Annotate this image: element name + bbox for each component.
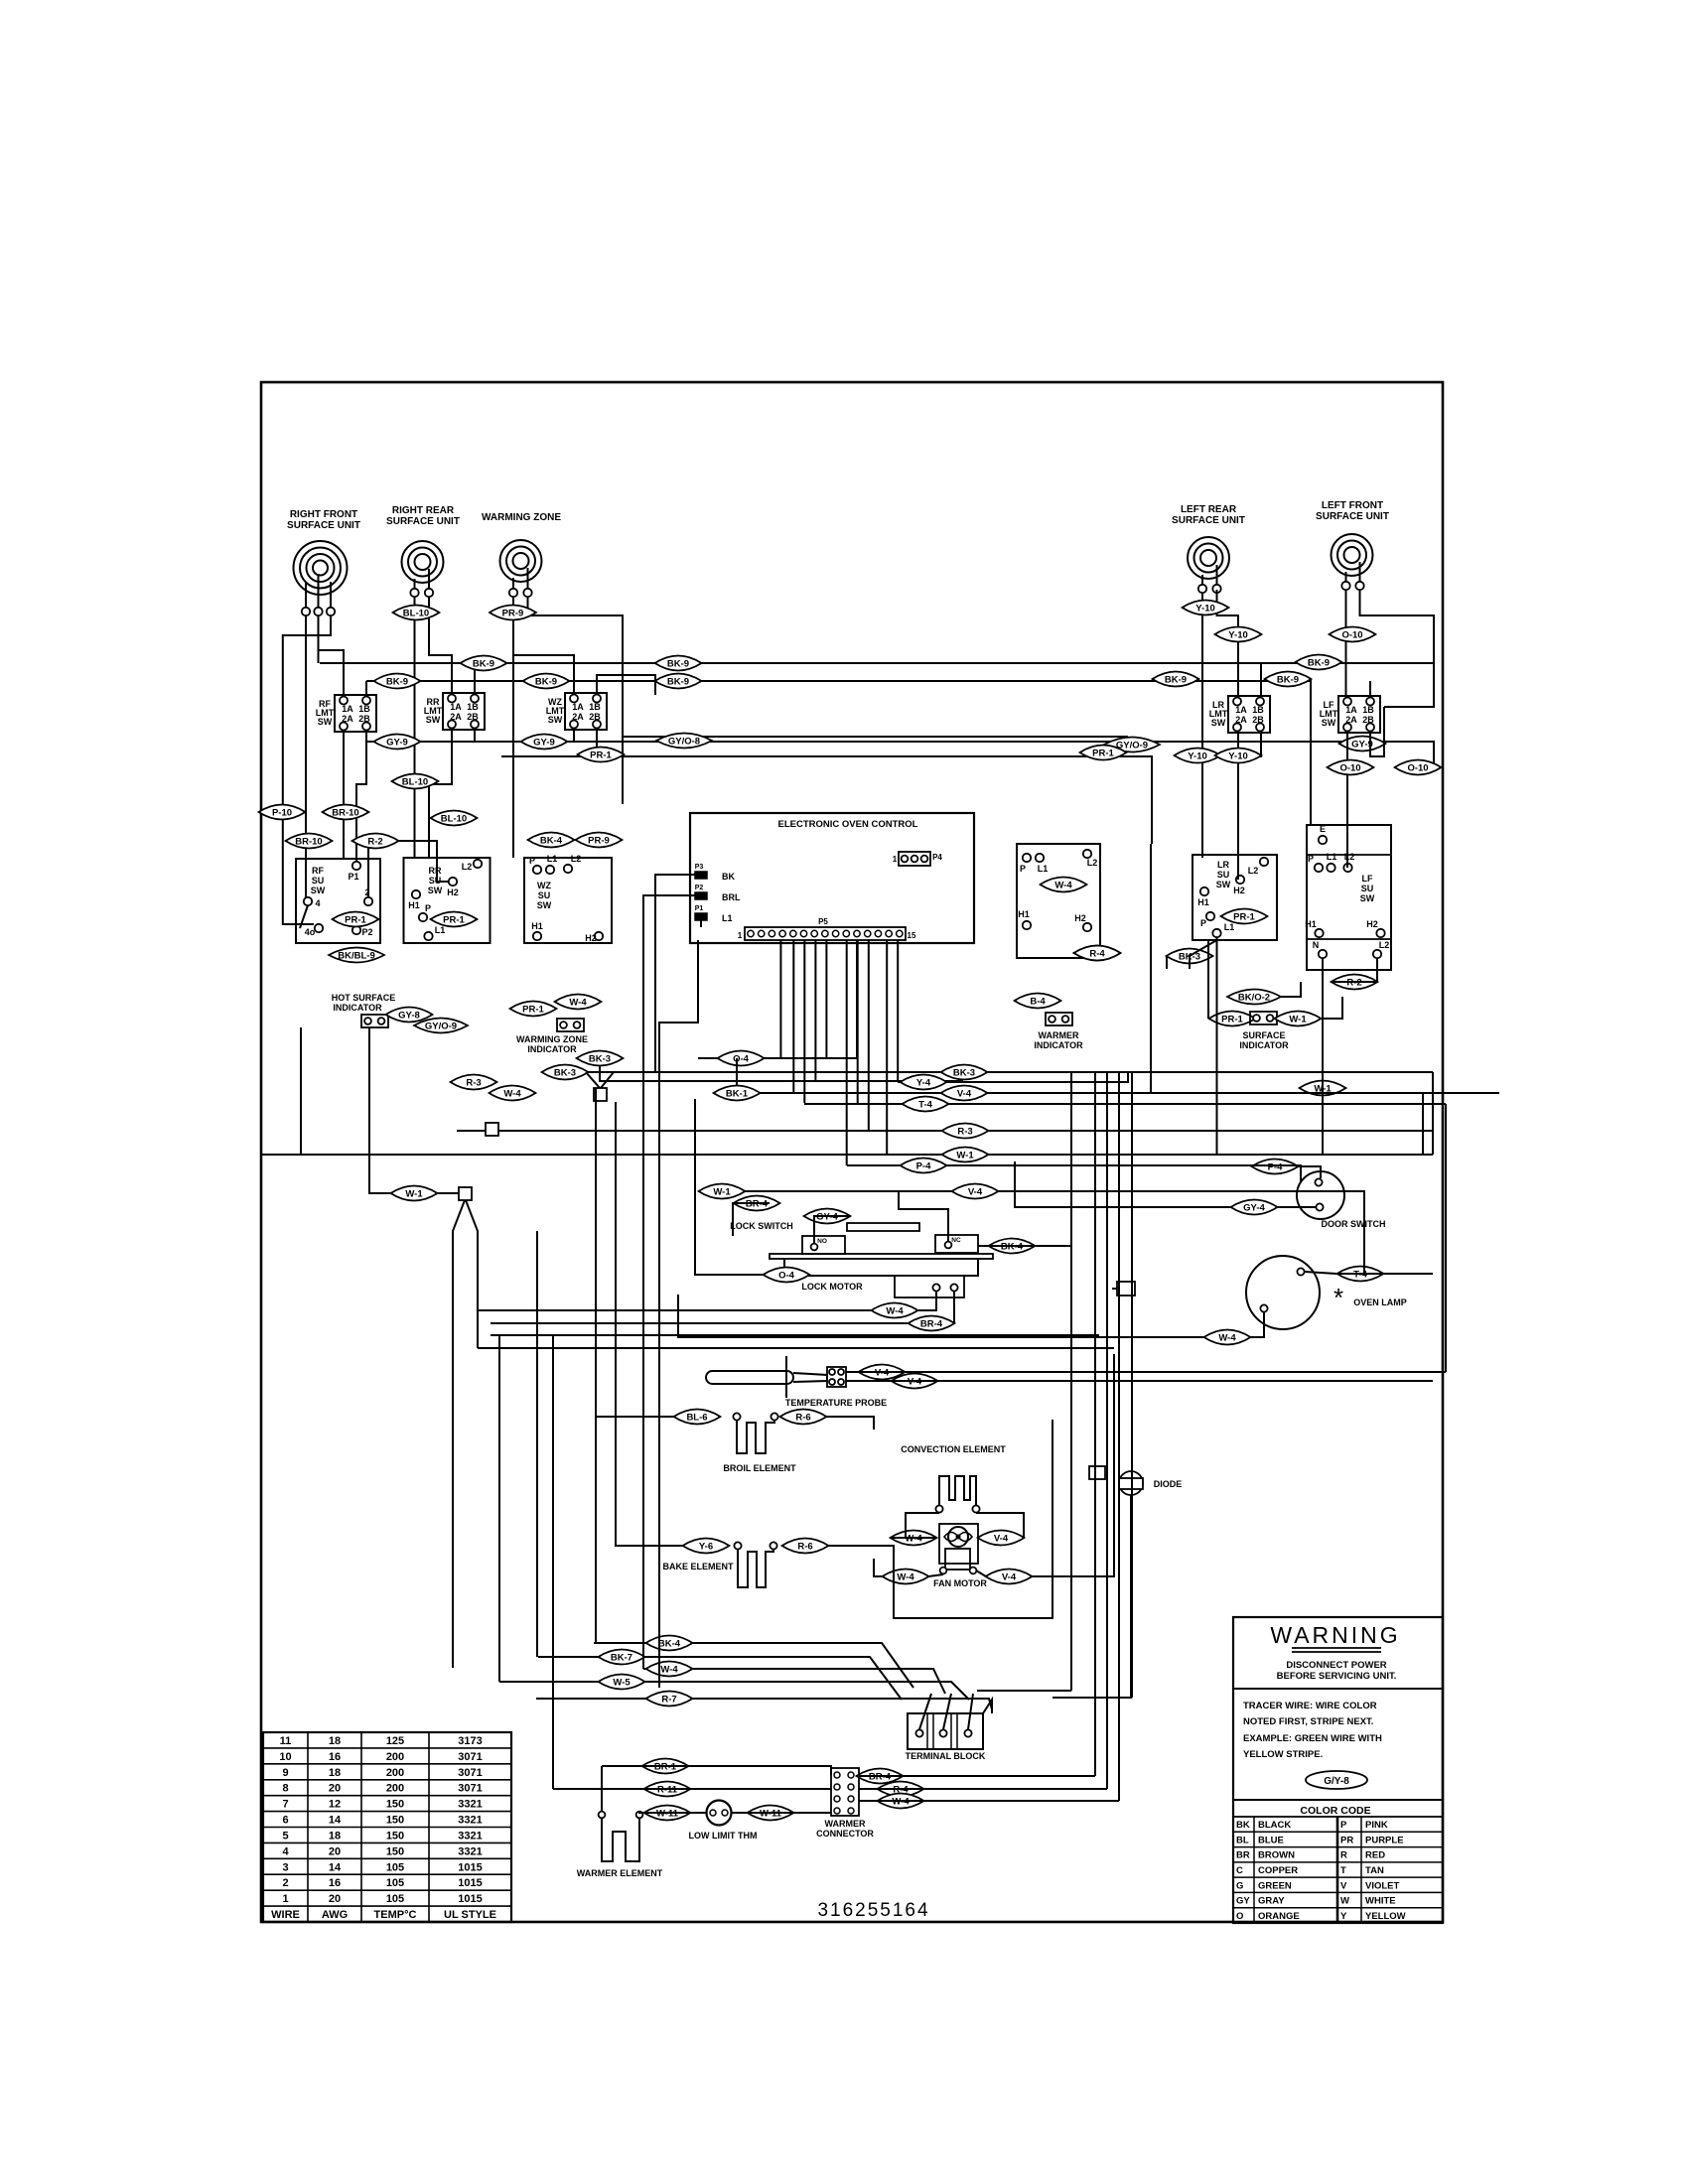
- svg-text:SW: SW: [1360, 893, 1375, 903]
- svg-text:GY: GY: [1236, 1896, 1250, 1907]
- wire LF N down: [1322, 958, 1324, 1155]
- oval Y-6 bake: [683, 1539, 730, 1554]
- wire EOC BRL stub: [643, 895, 695, 1131]
- wire RF LMT 1B up to bus2: [365, 681, 367, 695]
- svg-text:O-10: O-10: [1341, 629, 1362, 640]
- svg-text:WARMING ZONE: WARMING ZONE: [516, 1034, 588, 1044]
- wire WZ terminal right right: [528, 597, 624, 804]
- svg-text:150: 150: [386, 1799, 404, 1811]
- svg-text:PR-1: PR-1: [590, 750, 612, 760]
- svg-text:1A: 1A: [1235, 705, 1247, 715]
- wire lock bottom row1: [479, 1347, 1114, 1349]
- coil left front surface unit: [1332, 534, 1373, 576]
- svg-text:FAN MOTOR: FAN MOTOR: [933, 1578, 987, 1588]
- wire P5 pin drop 8: [868, 940, 870, 1131]
- svg-text:G: G: [1236, 1880, 1243, 1891]
- wire RF LMT 2A down to RF SU SW: [343, 731, 345, 859]
- oval BK-9 h: [1265, 672, 1312, 687]
- svg-text:O-10: O-10: [1407, 762, 1428, 773]
- svg-text:BK-3: BK-3: [554, 1067, 576, 1078]
- svg-text:BR-10: BR-10: [332, 807, 358, 818]
- junction c V left: [453, 1200, 465, 1646]
- wire bake left: [616, 1102, 683, 1546]
- wire w-4 lamp left: [678, 1295, 1204, 1337]
- oval R-6 bake: [782, 1539, 829, 1554]
- svg-text:WIRE: WIRE: [271, 1909, 300, 1921]
- lock bracket: [784, 1259, 895, 1276]
- svg-text:BLACK: BLACK: [1258, 1820, 1291, 1831]
- svg-text:3321: 3321: [458, 1831, 482, 1843]
- junction square c: [459, 1187, 472, 1200]
- svg-text:G/Y-8: G/Y-8: [1324, 1776, 1349, 1787]
- svg-text:BK-4: BK-4: [658, 1638, 681, 1649]
- oval W-11 llt right: [748, 1806, 794, 1821]
- oval Y-10 c: [1175, 749, 1221, 763]
- wire RF LMT 1A up: [319, 650, 345, 695]
- svg-text:PR-9: PR-9: [588, 835, 610, 846]
- oval BR-1 wc: [642, 1759, 689, 1774]
- row BK-3 long: [600, 1058, 963, 1081]
- wire R-2 run: [368, 841, 448, 897]
- svg-text:SW: SW: [537, 900, 552, 910]
- oval O-10 b: [1328, 760, 1374, 775]
- svg-text:H1: H1: [1305, 919, 1317, 929]
- broil element: [733, 1413, 740, 1420]
- oval P-10: [259, 805, 306, 820]
- wire 481 row: [478, 1347, 1114, 1349]
- row V-4 long: [730, 1092, 1499, 1094]
- svg-text:RED: RED: [1365, 1850, 1385, 1861]
- oval W-1 surf: [1275, 1012, 1322, 1026]
- oval BR-4 wc: [857, 1769, 904, 1784]
- oval W-4 warmer: [1041, 878, 1087, 892]
- oval BK-4 lock nc: [989, 1239, 1036, 1254]
- wire gy-4 door: [1015, 1161, 1231, 1207]
- bus BK-9 second: [366, 681, 1311, 825]
- svg-text:YELLOW: YELLOW: [1365, 1911, 1406, 1922]
- svg-text:BROWN: BROWN: [1258, 1850, 1295, 1861]
- connector P4: [899, 852, 930, 866]
- svg-text:1: 1: [738, 931, 743, 940]
- wire wc right BR-4: [859, 1775, 1095, 1777]
- oval V-4 probe1: [859, 1365, 906, 1380]
- svg-text:4: 4: [282, 1845, 289, 1857]
- svg-text:150: 150: [386, 1831, 404, 1843]
- svg-text:200: 200: [386, 1751, 404, 1763]
- oval GY-4 door: [1231, 1200, 1278, 1215]
- svg-text:W-1: W-1: [1289, 1014, 1307, 1024]
- svg-text:W-4: W-4: [1218, 1332, 1236, 1343]
- oval GY-8 hsi: [386, 1008, 433, 1023]
- svg-text:1B: 1B: [358, 704, 370, 714]
- svg-text:SW: SW: [311, 886, 326, 895]
- oval BK-9 g: [1153, 672, 1199, 687]
- svg-text:GY-4: GY-4: [1243, 1202, 1265, 1213]
- oval W-1 a: [942, 1148, 989, 1162]
- wire WZ LMT 1B right: [597, 675, 655, 695]
- oval PR-1 rf: [333, 912, 379, 927]
- svg-text:Y-6: Y-6: [699, 1541, 713, 1552]
- switch LF SU SW: [1307, 825, 1391, 970]
- svg-text:W-4: W-4: [886, 1305, 904, 1316]
- svg-text:3071: 3071: [458, 1751, 482, 1763]
- svg-text:W-1: W-1: [713, 1186, 731, 1197]
- coil warming zone: [500, 540, 542, 582]
- wire EOC L1 down: [659, 940, 698, 1155]
- oval BK-7 bl: [599, 1650, 645, 1665]
- svg-text:2A: 2A: [1345, 715, 1357, 725]
- wire wc right W-4: [859, 1800, 1119, 1802]
- svg-text:GRAY: GRAY: [1258, 1896, 1285, 1907]
- svg-text:BR-10: BR-10: [295, 836, 322, 847]
- svg-text:8: 8: [282, 1783, 288, 1795]
- svg-text:W-4: W-4: [503, 1088, 521, 1099]
- row O-4: [698, 940, 857, 1058]
- svg-text:SURFACE: SURFACE: [1242, 1030, 1285, 1040]
- svg-text:2A: 2A: [450, 712, 462, 722]
- svg-text:H2: H2: [1074, 913, 1086, 923]
- svg-text:SW: SW: [318, 717, 333, 727]
- svg-text:W: W: [1340, 1896, 1349, 1907]
- svg-text:PR-1: PR-1: [522, 1004, 544, 1015]
- svg-text:2: 2: [282, 1877, 288, 1889]
- wire LR term right down: [1217, 590, 1239, 696]
- oval W-4 wz ind: [555, 995, 602, 1010]
- svg-text:1B: 1B: [1252, 705, 1264, 715]
- svg-text:H2: H2: [1366, 919, 1378, 929]
- svg-text:5: 5: [282, 1831, 288, 1843]
- oval T-4: [903, 1097, 949, 1112]
- svg-text:Y-10: Y-10: [1228, 751, 1248, 761]
- diode: [1119, 1471, 1143, 1495]
- svg-text:14: 14: [329, 1815, 342, 1827]
- svg-text:P: P: [1308, 854, 1314, 864]
- svg-text:CONNECTOR: CONNECTOR: [816, 1829, 874, 1839]
- svg-text:C: C: [1236, 1865, 1243, 1876]
- switch WZ LMT SW: [565, 693, 607, 730]
- switch RR SU SW: [404, 858, 491, 943]
- oval Y-10 d: [1215, 749, 1262, 763]
- wire warmer left leg up: [601, 1766, 603, 1811]
- bus GY/O-8: [623, 737, 1152, 745]
- wire gy-4 lock: [733, 1203, 770, 1236]
- svg-text:BEFORE SERVICING UNIT.: BEFORE SERVICING UNIT.: [1277, 1671, 1397, 1682]
- svg-text:PR-1: PR-1: [443, 914, 465, 925]
- svg-text:COLOR CODE: COLOR CODE: [1300, 1805, 1370, 1817]
- svg-text:SW: SW: [428, 886, 443, 895]
- svg-text:R-6: R-6: [795, 1412, 810, 1423]
- svg-text:O-4: O-4: [733, 1053, 750, 1064]
- svg-text:BL-10: BL-10: [441, 813, 467, 824]
- svg-text:H2: H2: [585, 933, 597, 943]
- vert right 1456 T-4: [1445, 1104, 1447, 1372]
- svg-text:W-1: W-1: [405, 1188, 423, 1199]
- svg-text:R-2: R-2: [367, 836, 382, 847]
- svg-text:16: 16: [329, 1751, 341, 1763]
- wire w-4 lamp: [1250, 1312, 1264, 1337]
- oval BL-10 c: [431, 811, 478, 826]
- svg-text:W-1: W-1: [956, 1150, 974, 1160]
- oval W-4 lock motor: [872, 1303, 918, 1318]
- oval R-3 b: [942, 1124, 989, 1139]
- svg-text:BR: BR: [1236, 1850, 1250, 1861]
- svg-text:INDICATOR: INDICATOR: [1034, 1040, 1083, 1050]
- svg-text:GY-9: GY-9: [533, 737, 555, 748]
- svg-text:COPPER: COPPER: [1258, 1865, 1298, 1876]
- wire P5 pin drop 7: [857, 940, 859, 1104]
- wire wc right R-4: [859, 1788, 1107, 1790]
- svg-text:7: 7: [282, 1799, 288, 1811]
- svg-text:4: 4: [315, 898, 320, 908]
- junction c V right: [466, 1200, 478, 1348]
- wire w-1 surf right: [1322, 997, 1342, 1019]
- svg-text:BK-9: BK-9: [1308, 657, 1330, 668]
- oval R-2 surf: [1332, 975, 1378, 990]
- svg-text:2B: 2B: [358, 714, 370, 724]
- svg-text:1B: 1B: [467, 702, 479, 712]
- svg-text:1A: 1A: [1345, 705, 1357, 715]
- terminal block: [908, 1713, 983, 1749]
- oval BK-3 a: [577, 1051, 624, 1066]
- oval GY/O-9 hsi: [414, 1019, 468, 1033]
- oval R-3 a: [451, 1075, 497, 1090]
- svg-text:SURFACE UNIT: SURFACE UNIT: [1172, 515, 1245, 526]
- temperature probe: [706, 1371, 793, 1384]
- oval BK-4 bl: [646, 1636, 693, 1651]
- svg-text:P2: P2: [695, 885, 704, 891]
- wire P5 pin drop 4: [814, 940, 816, 1082]
- svg-text:Y-10: Y-10: [1195, 603, 1215, 614]
- wire P5 pin drop 10: [897, 940, 899, 1082]
- svg-text:VIOLET: VIOLET: [1365, 1880, 1400, 1891]
- svg-text:3321: 3321: [458, 1845, 482, 1857]
- wire P5 pin drop 6: [846, 940, 848, 1165]
- svg-text:16: 16: [329, 1877, 341, 1889]
- coil right front surface unit: [294, 541, 348, 595]
- svg-text:LR: LR: [1217, 860, 1229, 870]
- svg-text:18: 18: [329, 1735, 341, 1747]
- svg-text:HOT SURFACE: HOT SURFACE: [332, 993, 396, 1003]
- wire lock motor down left: [918, 1292, 936, 1310]
- oval GY-4 lock: [804, 1209, 851, 1224]
- svg-text:BLUE: BLUE: [1258, 1835, 1284, 1845]
- svg-text:2B: 2B: [1252, 715, 1264, 725]
- wire LR LMT 1B up: [1260, 663, 1262, 696]
- svg-text:BK: BK: [722, 872, 735, 882]
- row T-4: [804, 1103, 1446, 1105]
- oval BL-6 broil: [674, 1410, 721, 1425]
- row Y-4: [898, 1073, 1128, 1082]
- svg-text:H1: H1: [408, 900, 420, 910]
- wire fan left: [906, 1537, 936, 1539]
- wire P5 pin drop 3: [803, 940, 805, 1103]
- svg-text:SW: SW: [1322, 718, 1336, 728]
- junction a arrow: [586, 1072, 600, 1088]
- wire LF LMT 2B down: [1370, 707, 1384, 756]
- switch LF LMT SW: [1338, 696, 1380, 733]
- wire RR LMT 1B up: [474, 663, 476, 693]
- oval BK-9 e: [523, 674, 570, 689]
- oval BK-9 d: [374, 674, 421, 689]
- svg-text:PR-1: PR-1: [1233, 911, 1255, 922]
- svg-text:LOW LIMIT THM: LOW LIMIT THM: [689, 1831, 758, 1841]
- svg-text:BK-9: BK-9: [1165, 674, 1187, 685]
- svg-text:BK/O-2: BK/O-2: [1238, 992, 1270, 1003]
- svg-text:SURFACE UNIT: SURFACE UNIT: [287, 520, 360, 531]
- wire fan bl: [928, 1574, 943, 1576]
- svg-text:BK-9: BK-9: [667, 658, 689, 669]
- oval P-4 door: [1252, 1160, 1299, 1174]
- svg-text:TEMP°C: TEMP°C: [374, 1909, 417, 1921]
- oval W-4 lamp: [1204, 1330, 1251, 1345]
- svg-text:BK: BK: [1236, 1820, 1250, 1831]
- oval BK-3 left of LR L1: [1167, 949, 1213, 964]
- row W-11: [643, 1812, 707, 1814]
- indicator hot surface: [361, 1015, 388, 1027]
- svg-text:B-4: B-4: [1030, 996, 1046, 1007]
- svg-text:11: 11: [280, 1735, 292, 1747]
- switch LR SU SW: [1193, 855, 1277, 940]
- convection element: [939, 1476, 976, 1505]
- oval GY-9 a: [374, 735, 421, 750]
- svg-text:15: 15: [908, 931, 916, 940]
- pin P1 L1: [695, 913, 707, 920]
- svg-text:316255164: 316255164: [817, 1900, 929, 1921]
- wire RR LMT 2A down: [429, 730, 452, 858]
- wire diode down: [1052, 1495, 1131, 1698]
- svg-text:*: *: [1333, 1283, 1343, 1312]
- oval Y-4 a: [901, 1075, 947, 1090]
- svg-text:PURPLE: PURPLE: [1365, 1835, 1404, 1845]
- oval PR-9 b: [576, 833, 623, 848]
- wire conv left: [891, 1513, 939, 1538]
- svg-text:BK/BL-9: BK/BL-9: [338, 950, 374, 961]
- bus vertical x1115: [1106, 1072, 1108, 1789]
- oval GY/O-9 right: [1104, 738, 1160, 752]
- svg-text:Y-10: Y-10: [1228, 629, 1248, 640]
- svg-text:LEFT REAR: LEFT REAR: [1181, 504, 1237, 515]
- svg-text:AWG: AWG: [322, 1909, 348, 1921]
- svg-text:W-4: W-4: [569, 997, 587, 1008]
- svg-text:1: 1: [282, 1893, 288, 1905]
- switch RR LMT SW: [443, 693, 485, 730]
- svg-text:BK-1: BK-1: [726, 1088, 749, 1099]
- svg-text:L2: L2: [1087, 858, 1098, 868]
- svg-text:NC: NC: [951, 1237, 961, 1244]
- svg-text:1015: 1015: [458, 1861, 482, 1873]
- svg-text:WZ: WZ: [537, 881, 551, 890]
- wire LF LMT 1B up: [1369, 681, 1371, 696]
- indicator surface: [1250, 1012, 1277, 1024]
- vert 540 down: [536, 1231, 538, 1657]
- svg-text:UL STYLE: UL STYLE: [444, 1909, 496, 1921]
- oval R-2: [352, 834, 399, 849]
- svg-text:R: R: [1340, 1850, 1347, 1861]
- wire RR LMT 2B down: [474, 730, 476, 742]
- svg-text:H1: H1: [531, 921, 543, 931]
- oval O-10 c: [1395, 760, 1442, 775]
- oval PR-1 wz ind: [510, 1002, 557, 1017]
- wire gauge table: [263, 1732, 511, 1922]
- wire warmer right leg: [639, 1811, 643, 1813]
- svg-text:N: N: [1313, 940, 1320, 950]
- wire probe right: [846, 1371, 1446, 1373]
- svg-text:W-4: W-4: [897, 1571, 914, 1582]
- wire lock nc right: [978, 1245, 1071, 1247]
- oval GY/O-8: [656, 734, 712, 749]
- svg-text:GY/O-9: GY/O-9: [425, 1021, 457, 1031]
- svg-text:20: 20: [329, 1893, 341, 1905]
- wire surf ind chain: [1190, 940, 1217, 969]
- svg-text:4o: 4o: [305, 927, 316, 937]
- wire RR terminal left down: [414, 597, 416, 858]
- svg-text:3321: 3321: [458, 1799, 482, 1811]
- svg-text:1B: 1B: [1362, 705, 1374, 715]
- svg-text:ORANGE: ORANGE: [1258, 1911, 1300, 1922]
- oval BK-9 a: [461, 656, 507, 671]
- wire gy-4 door2: [1278, 1206, 1317, 1208]
- wire w-4 lock row: [479, 1309, 872, 1311]
- svg-text:PINK: PINK: [1365, 1820, 1388, 1831]
- svg-text:BK-9: BK-9: [535, 676, 557, 687]
- wire PR-1 RF: [299, 918, 301, 920]
- wire r-2 lf: [1331, 958, 1377, 982]
- row BR-1: [602, 1766, 831, 1775]
- pin P2 BRL: [695, 892, 707, 899]
- oval BR-10 b: [286, 834, 333, 849]
- svg-text:BRL: BRL: [722, 892, 741, 902]
- lock switch plate: [847, 1223, 919, 1231]
- svg-text:P3: P3: [695, 864, 704, 871]
- warmer element: [599, 1812, 606, 1819]
- lock motor box: [895, 1276, 964, 1297]
- oval W-11 wc left: [644, 1806, 691, 1821]
- vert right 1443 R-3: [1432, 1072, 1434, 1131]
- oval Y-10 a: [1183, 601, 1229, 615]
- oval V-4 probe2: [892, 1374, 938, 1389]
- svg-text:W-5: W-5: [613, 1677, 631, 1688]
- svg-text:WARMER: WARMER: [825, 1819, 866, 1829]
- wire 1079 bottom: [977, 1690, 1071, 1692]
- svg-text:3321: 3321: [458, 1815, 482, 1827]
- wire v-4 fan right: [1032, 1354, 1114, 1576]
- svg-text:L2: L2: [571, 854, 582, 864]
- indicator warming zone: [557, 1019, 584, 1031]
- svg-text:ELECTRONIC OVEN CONTROL: ELECTRONIC OVEN CONTROL: [778, 819, 918, 830]
- row V-4 lower: [722, 1191, 1364, 1274]
- vert 503 down: [498, 1335, 500, 1682]
- svg-text:P: P: [1020, 864, 1026, 874]
- svg-text:R-6: R-6: [797, 1541, 812, 1552]
- vert 664 down: [658, 1155, 660, 1688]
- oval W-1 below surf: [1300, 1081, 1346, 1096]
- svg-text:P-10: P-10: [272, 807, 292, 818]
- svg-text:LEFT FRONT: LEFT FRONT: [1322, 500, 1383, 511]
- oval R-7 bl: [646, 1692, 693, 1706]
- svg-text:V-4: V-4: [1002, 1571, 1017, 1582]
- svg-text:PR-1: PR-1: [1092, 748, 1114, 758]
- oval T-4 lamp: [1337, 1267, 1384, 1282]
- svg-text:GREEN: GREEN: [1258, 1880, 1292, 1891]
- svg-text:200: 200: [386, 1783, 404, 1795]
- oval V-4 fan1: [978, 1531, 1025, 1546]
- svg-text:3: 3: [282, 1861, 288, 1873]
- svg-text:P-4: P-4: [1268, 1161, 1284, 1172]
- switch WZ SU SW: [524, 858, 612, 943]
- svg-text:105: 105: [386, 1877, 404, 1889]
- svg-text:RR: RR: [429, 866, 442, 876]
- wire WZ LMT 2B down: [596, 730, 598, 756]
